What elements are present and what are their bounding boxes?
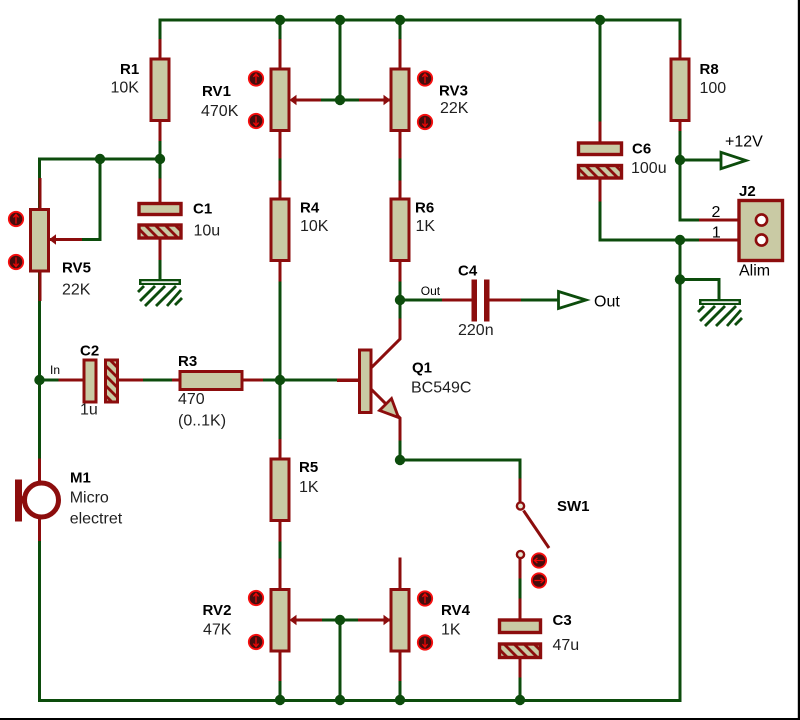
svg-text:R6: R6 (415, 200, 434, 217)
svg-text:1K: 1K (441, 622, 461, 639)
svg-text:(0..1K): (0..1K) (178, 413, 226, 430)
svg-text:22K: 22K (62, 282, 91, 299)
svg-text:R1: R1 (120, 61, 139, 78)
svg-text:SW1: SW1 (557, 498, 590, 515)
svg-text:1K: 1K (299, 479, 319, 496)
svg-text:470K: 470K (201, 103, 239, 120)
svg-text:RV5: RV5 (62, 260, 91, 277)
svg-text:2: 2 (712, 204, 721, 221)
svg-text:Micro: Micro (70, 490, 109, 507)
svg-text:470: 470 (178, 391, 205, 408)
svg-text:Alim: Alim (739, 263, 770, 280)
svg-text:BC549C: BC549C (411, 379, 471, 396)
svg-text:RV3: RV3 (439, 83, 468, 100)
svg-text:1u: 1u (80, 402, 98, 419)
svg-text:+12V: +12V (725, 134, 763, 151)
svg-text:100: 100 (700, 80, 727, 97)
svg-text:47u: 47u (553, 637, 580, 654)
svg-text:C3: C3 (553, 612, 572, 629)
svg-text:100u: 100u (631, 160, 667, 177)
svg-text:M1: M1 (70, 470, 91, 487)
svg-text:In: In (50, 363, 60, 377)
svg-text:220n: 220n (458, 322, 494, 339)
svg-text:C4: C4 (458, 263, 478, 280)
svg-text:10K: 10K (300, 218, 329, 235)
svg-text:RV1: RV1 (202, 83, 231, 100)
svg-text:1K: 1K (416, 218, 436, 235)
svg-text:Out: Out (421, 284, 441, 298)
svg-text:47K: 47K (203, 622, 232, 639)
svg-text:C1: C1 (193, 201, 212, 218)
svg-text:RV2: RV2 (203, 602, 232, 619)
svg-text:1: 1 (712, 225, 721, 242)
svg-text:R4: R4 (300, 200, 320, 217)
svg-text:C6: C6 (632, 140, 651, 157)
svg-text:22K: 22K (440, 100, 469, 117)
svg-text:R3: R3 (178, 353, 197, 370)
svg-text:J2: J2 (739, 183, 756, 200)
svg-text:R8: R8 (700, 61, 719, 78)
svg-text:R5: R5 (299, 459, 318, 476)
svg-text:C2: C2 (80, 343, 99, 360)
svg-text:Q1: Q1 (412, 359, 432, 376)
svg-text:10u: 10u (194, 223, 221, 240)
svg-text:RV4: RV4 (441, 602, 471, 619)
svg-text:electret: electret (70, 511, 123, 528)
svg-text:10K: 10K (111, 80, 140, 97)
svg-text:Out: Out (594, 294, 620, 311)
